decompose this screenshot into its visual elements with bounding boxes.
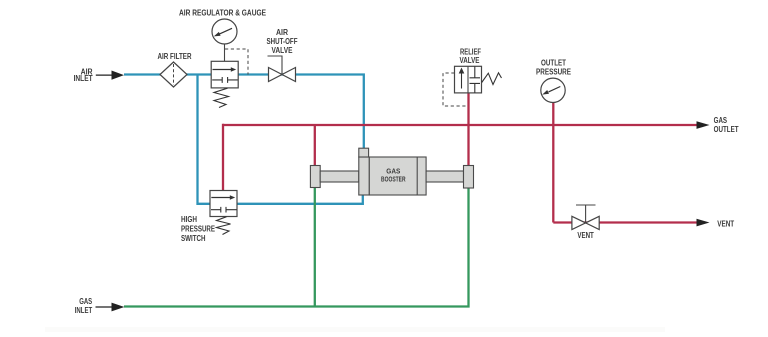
svg-text:INLET: INLET [75, 306, 93, 315]
air shut-off valve V1 handle [268, 56, 283, 75]
svg-text:AIR FILTER: AIR FILTER [158, 52, 192, 61]
wire: green line booster left cap to gas inlet line [314, 187, 316, 307]
svg-text:VALVE: VALVE [460, 56, 481, 65]
dashed pilot line: regulator gauge feedback [225, 49, 248, 75]
wire: blue switch output to booster bottom port [237, 195, 363, 204]
svg-text:OUTLET: OUTLET [541, 58, 566, 67]
vent valve V2 handle [576, 205, 596, 223]
wire: red gas outlet main line [223, 124, 697, 126]
switch spring [217, 217, 231, 235]
svg-text:SWITCH: SWITCH [181, 234, 206, 243]
svg-text:VENT: VENT [717, 219, 734, 228]
gas booster main body [369, 157, 426, 195]
vent arrow [697, 219, 710, 227]
svg-text:GAS: GAS [386, 168, 400, 175]
relief valve spring [482, 73, 502, 85]
gas booster right end cap [464, 166, 474, 189]
gas booster top air port [359, 148, 369, 157]
gas booster body divider [416, 157, 418, 195]
gas booster right rod [426, 171, 463, 182]
wire: blue pilot branch to high pressure switch [198, 75, 211, 204]
svg-text:PRESSURE: PRESSURE [536, 68, 572, 77]
regulator spring [214, 88, 229, 107]
wire: blue air supply main line [124, 75, 364, 149]
svg-text:PRESSURE: PRESSURE [181, 224, 216, 233]
wire: red line relief valve to booster right cap [467, 93, 469, 166]
gas outlet arrow [697, 121, 710, 129]
wire: red sense line to high pressure switch [222, 124, 224, 191]
vent valve V2 body [572, 216, 586, 229]
air inlet arrow [96, 74, 112, 76]
high pressure switch S1 [210, 191, 237, 217]
dashed pilot line: relief valve sense [443, 73, 467, 106]
svg-text:VALVE: VALVE [272, 46, 294, 55]
wire: red line to booster left cap [314, 125, 316, 166]
wire: red line gauge down to vent line [552, 102, 554, 223]
svg-text:BOOSTER: BOOSTER [381, 176, 406, 183]
wire: red vent line [553, 221, 697, 223]
svg-text:RELIEF: RELIEF [460, 47, 481, 56]
svg-text:SHUT-OFF: SHUT-OFF [267, 37, 298, 46]
gauge G1 [212, 19, 237, 44]
gas booster left rod [320, 171, 359, 182]
gas booster air section [359, 157, 370, 195]
svg-text:OUTLET: OUTLET [714, 125, 739, 134]
faint bottom shadow [45, 327, 665, 332]
gas inlet arrow [96, 306, 113, 308]
svg-text:GAS: GAS [79, 297, 92, 306]
svg-text:INLET: INLET [74, 74, 93, 83]
svg-text:GAS: GAS [714, 116, 728, 125]
svg-text:HIGH: HIGH [181, 215, 197, 224]
svg-text:AIR REGULATOR & GAUGE: AIR REGULATOR & GAUGE [179, 7, 266, 17]
air shut-off valve V1 body [269, 68, 283, 82]
svg-text:VENT: VENT [577, 231, 594, 240]
gas booster left end cap [310, 166, 320, 188]
wire: green gas inlet line [124, 188, 469, 307]
air regulator R1 [211, 61, 238, 88]
gauge G1 stem [224, 44, 226, 61]
relief valve RV1 body [455, 66, 482, 93]
outlet pressure gauge G2 [541, 78, 565, 102]
